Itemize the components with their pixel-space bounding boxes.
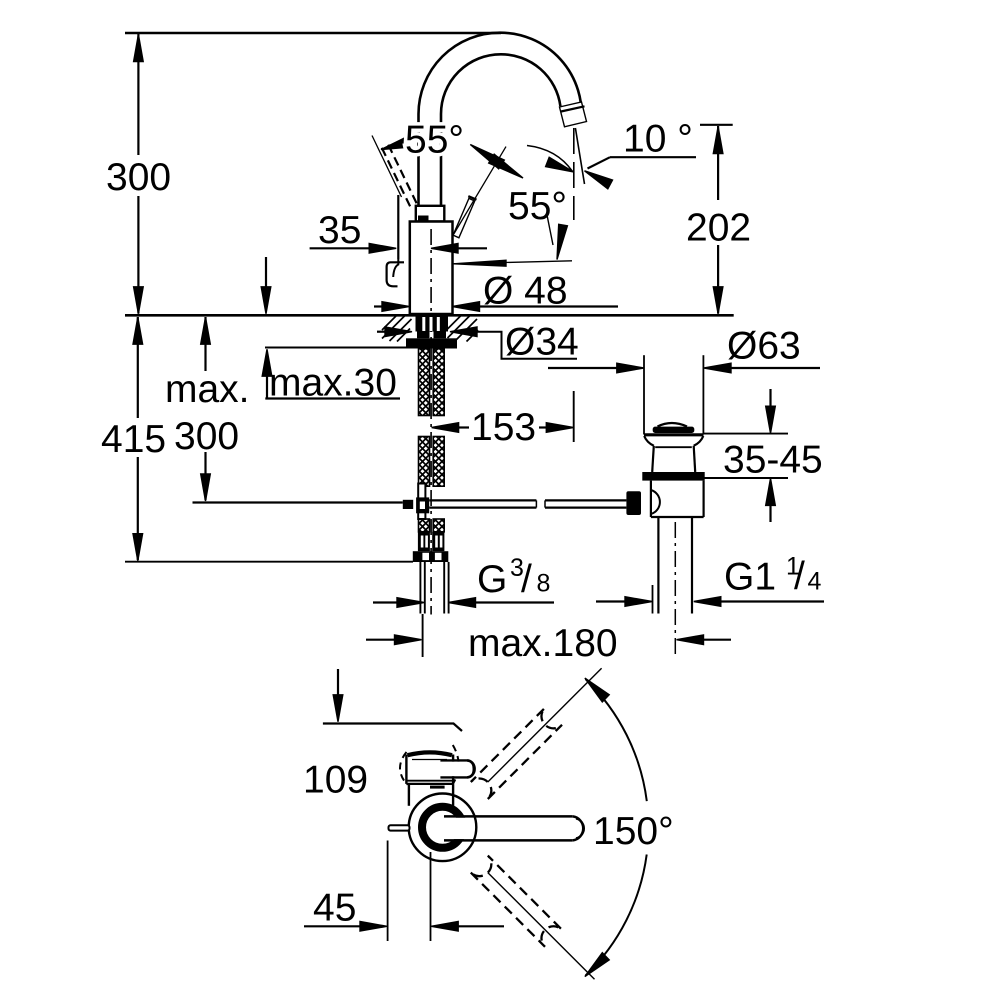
dia63 extension lines bbox=[643, 355, 645, 434]
drain plug bar bbox=[653, 427, 695, 433]
svg-text:35: 35 bbox=[318, 209, 361, 252]
dimension dia63 right bbox=[704, 363, 731, 373]
drain body notch arc bbox=[651, 490, 660, 514]
handle blade (solid) bbox=[453, 198, 475, 237]
dimension 415 top arrow bbox=[133, 317, 143, 344]
max30 label underline bbox=[265, 397, 400, 399]
handle dashed position (left) bbox=[382, 148, 411, 208]
connection nuts bbox=[413, 551, 449, 562]
G114 tick bbox=[652, 585, 654, 614]
svg-text:55°: 55° bbox=[405, 119, 464, 162]
handle axis extension line bbox=[454, 147, 506, 234]
svg-text:45: 45 bbox=[313, 887, 356, 930]
spout inner arc bbox=[441, 54, 560, 114]
dimension 153 tick bbox=[573, 391, 575, 442]
body centerline bbox=[430, 229, 432, 615]
45 extension lines bbox=[387, 841, 389, 942]
svg-text:Ø63: Ø63 bbox=[727, 325, 801, 368]
mounting washer bbox=[406, 338, 457, 348]
dimension 202 top tick bbox=[700, 124, 733, 126]
plan cap inner line bbox=[412, 759, 447, 761]
plan rear reference line bbox=[323, 724, 462, 732]
55deg leader down arrow bbox=[547, 215, 553, 245]
counter hatch left bbox=[382, 316, 405, 339]
dimension 415 line bbox=[137, 317, 139, 418]
dimension max30 lower arrow bbox=[262, 349, 272, 376]
angle crossing arrow A bbox=[470, 145, 504, 169]
drain neck inner line bbox=[655, 446, 692, 448]
svg-text:Ø34: Ø34 bbox=[505, 321, 579, 364]
dimension 415 bottom arrow bbox=[133, 534, 143, 561]
spout riser right edge bbox=[440, 114, 443, 206]
dimension 109 arrow bbox=[337, 669, 339, 696]
plan cartridge cap bbox=[408, 753, 452, 783]
drain flange right curve bbox=[694, 436, 704, 446]
swivel arc bottom arrow bbox=[585, 953, 609, 977]
dashed spout position upper bbox=[471, 708, 562, 799]
10deg arc bbox=[527, 146, 573, 172]
svg-text:109: 109 bbox=[303, 759, 368, 802]
10deg leader line bbox=[610, 156, 696, 158]
svg-text:G: G bbox=[477, 558, 507, 601]
drain tailpipe bbox=[657, 517, 659, 614]
braided supply hoses bbox=[419, 349, 430, 416]
dimension dia48 left arrow bbox=[374, 305, 384, 307]
svg-text:/: / bbox=[794, 555, 805, 598]
pull rod reference line bbox=[193, 501, 403, 503]
plan lever cap bbox=[467, 760, 475, 777]
shank mid blocks bbox=[417, 332, 430, 339]
dimension G114 left bbox=[596, 600, 626, 602]
dimension max30 upper arrow bbox=[265, 257, 267, 290]
dashed spout position lower bbox=[471, 856, 562, 947]
horizontal reference thin line bbox=[454, 261, 573, 264]
rod clevis block bbox=[626, 491, 641, 515]
plan cap bottom inner line bbox=[406, 780, 453, 782]
plan cap top thick bbox=[408, 752, 453, 755]
tee vertical bar bbox=[418, 484, 425, 520]
dimension dia34 left arrow bbox=[377, 331, 386, 333]
dimension 153 left arrow bbox=[432, 423, 459, 433]
spout outer arc bbox=[419, 33, 582, 123]
drain flange top bbox=[644, 433, 704, 436]
dimension G38 left bbox=[373, 601, 398, 603]
swivel diagonal lower bbox=[488, 873, 595, 980]
svg-text:max.180: max.180 bbox=[468, 622, 618, 665]
svg-text:202: 202 bbox=[686, 207, 751, 250]
svg-text:10 °: 10 ° bbox=[623, 118, 693, 161]
svg-text:max.: max. bbox=[165, 368, 250, 411]
swivel diagonal upper bbox=[488, 668, 602, 782]
10deg leader arrow bbox=[585, 171, 613, 189]
swivel arc top arrow bbox=[585, 678, 609, 702]
dimension max300 bottom arrow bbox=[201, 474, 211, 501]
supply pipe ends bbox=[419, 562, 421, 614]
svg-text:8: 8 bbox=[537, 570, 551, 598]
angle crossing arrow B bbox=[489, 154, 523, 178]
svg-text:300: 300 bbox=[174, 415, 239, 458]
dimension 45 left bbox=[304, 925, 361, 927]
handle blade cap bbox=[468, 196, 476, 200]
plan lever stub bbox=[441, 762, 467, 777]
spout riser left edge bbox=[417, 114, 420, 206]
dashed handle axis extension bbox=[372, 136, 402, 198]
svg-text:G1: G1 bbox=[724, 556, 776, 599]
plan spout bar cap inner bbox=[576, 819, 584, 839]
dimension max180 right bbox=[677, 635, 704, 645]
aerator tip bbox=[560, 102, 587, 127]
dimension max300 top arrow bbox=[201, 317, 211, 344]
dimension 45 right bbox=[431, 922, 458, 932]
slender wedge arrow on reference line bbox=[454, 260, 507, 266]
plan dashed arc right bbox=[453, 745, 459, 784]
hose end fittings bbox=[418, 532, 430, 551]
drain seal band bbox=[642, 472, 704, 481]
plan swivel black ring bbox=[422, 807, 463, 848]
dimension 300 line bbox=[137, 33, 139, 155]
svg-text:55°: 55° bbox=[508, 185, 567, 228]
dimension dia48 right arrow+underline bbox=[453, 302, 480, 312]
svg-text:/: / bbox=[521, 558, 532, 601]
counter hatch right bbox=[448, 316, 470, 338]
dimension 35-45 bottom arrow bbox=[766, 478, 776, 505]
10deg leader connector bbox=[588, 157, 611, 168]
svg-text:415: 415 bbox=[101, 418, 166, 461]
angle arrow at dashed axis bbox=[381, 137, 408, 149]
pop-up rod knob bbox=[387, 262, 404, 286]
35-45 extension lines bbox=[704, 433, 789, 435]
max180 extension bbox=[422, 614, 424, 657]
mounting shank nut bbox=[416, 316, 449, 332]
dimension G114 right bbox=[694, 597, 721, 607]
dimension 300 bottom arrow bbox=[134, 287, 144, 314]
stream tilted line (10 deg) bbox=[575, 128, 584, 184]
dimension 202 top arrow bbox=[713, 127, 723, 154]
dimension G38 right bbox=[449, 598, 476, 608]
plan body tick bbox=[430, 786, 445, 789]
max30 extension line bbox=[265, 347, 408, 349]
drain plug dome bbox=[658, 423, 688, 427]
horizontal pop-up rod bbox=[429, 499, 536, 501]
pop-up rod behind body bbox=[397, 195, 399, 259]
svg-text:150°: 150° bbox=[593, 810, 674, 853]
stream vertical dash line bbox=[573, 128, 575, 220]
collar bbox=[416, 206, 445, 222]
drain neck sides bbox=[652, 446, 654, 472]
dimension 153 right arrow bbox=[539, 426, 548, 428]
drain centerline bbox=[674, 522, 676, 656]
10deg arc arrow bbox=[546, 157, 574, 172]
dimension max300 line bbox=[204, 317, 206, 371]
dimension dia63 left bbox=[548, 367, 618, 369]
top reference line (faucet height) bbox=[125, 32, 501, 34]
plan spout bar bbox=[444, 818, 572, 839]
counter top line bbox=[125, 314, 734, 317]
svg-text:300: 300 bbox=[106, 156, 171, 199]
plan dashed arc left bbox=[400, 752, 407, 784]
plan outer circle bbox=[409, 794, 477, 862]
dimension 35 right arrow+tail bbox=[431, 244, 458, 254]
svg-text:4: 4 bbox=[808, 568, 822, 596]
svg-text:35-45: 35-45 bbox=[723, 439, 823, 482]
swivel arc 150deg bbox=[586, 679, 647, 801]
dimension dia34 right arrow + bent leader bbox=[450, 327, 477, 337]
dimension 35 left line+arrow bbox=[310, 247, 370, 249]
body cylinder bbox=[410, 222, 453, 315]
drain flange left curve bbox=[644, 436, 654, 446]
dimension max180 left bbox=[366, 639, 396, 641]
svg-text:153: 153 bbox=[471, 406, 536, 449]
dimension 415 bottom extension line bbox=[125, 561, 413, 563]
plan body bbox=[410, 785, 452, 806]
plan pop-up rod bbox=[389, 825, 410, 830]
drain body bbox=[650, 481, 652, 517]
tee black square bbox=[416, 497, 429, 513]
dimension 300 top arrow bbox=[134, 35, 144, 62]
dimension 202 line bbox=[717, 126, 719, 200]
svg-text:Ø 48: Ø 48 bbox=[483, 270, 568, 313]
rod knob block bbox=[403, 500, 413, 509]
dimension 202 bottom arrow bbox=[713, 287, 723, 314]
collar black mark bbox=[418, 216, 429, 222]
dimension 35-45 top arrow bbox=[769, 389, 771, 407]
